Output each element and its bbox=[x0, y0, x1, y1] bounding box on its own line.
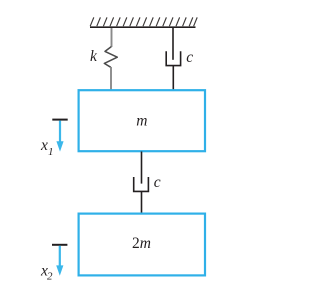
spring k bbox=[104, 47, 117, 68]
mass 2m bbox=[79, 214, 205, 276]
mass m bbox=[79, 90, 205, 151]
ceiling line bbox=[90, 26, 196, 28]
wire: damper upper rod bbox=[172, 28, 174, 60]
node: x1 reference tick bbox=[52, 119, 67, 121]
wire: damper lower rod bbox=[172, 66, 174, 90]
wire: rod mass m to middle damper bbox=[141, 152, 143, 184]
arrow x2 bbox=[56, 246, 63, 276]
wire: spring upper rod bbox=[111, 28, 113, 47]
svg-text:1: 1 bbox=[48, 146, 54, 158]
ceiling hatching bbox=[90, 17, 197, 26]
svg-text:c: c bbox=[154, 174, 161, 191]
wire: rod middle damper to mass 2m bbox=[141, 191, 143, 213]
arrow x1 bbox=[56, 121, 63, 152]
wire: spring lower rod bbox=[110, 67, 112, 90]
svg-text:k: k bbox=[90, 48, 98, 65]
svg-text:2: 2 bbox=[47, 270, 53, 282]
svg-text:c: c bbox=[186, 49, 193, 66]
svg-text:x: x bbox=[40, 137, 48, 154]
svg-text:m: m bbox=[136, 112, 147, 129]
node: x2 reference tick bbox=[52, 244, 67, 246]
damper c (middle) cup bbox=[134, 177, 149, 191]
damper c (top) cup bbox=[166, 51, 180, 65]
svg-text:2m: 2m bbox=[132, 235, 151, 252]
